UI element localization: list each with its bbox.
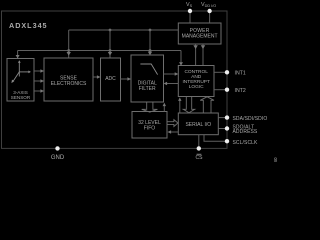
wire drop to 3-axis sensor xyxy=(16,51,20,59)
wide arrow filter to fifo xyxy=(142,102,158,112)
upper power rail xyxy=(69,29,179,31)
pin GND xyxy=(51,146,65,161)
svg-text:ELECTRONICS: ELECTRONICS xyxy=(51,81,87,87)
wire power to control 2 xyxy=(201,44,205,66)
svg-text:LOGIC: LOGIC xyxy=(189,84,204,90)
wire SDA/SDI/SDIO xyxy=(218,115,267,122)
axis icon xyxy=(11,60,31,83)
wire power to control 1 xyxy=(193,44,197,66)
svg-text:SERIAL I/O: SERIAL I/O xyxy=(185,122,211,128)
svg-text:MANAGEMENT: MANAGEMENT xyxy=(182,34,218,40)
wire sensor to sense x xyxy=(34,69,44,72)
control and interrupt logic block xyxy=(178,66,214,97)
wire adc to filter xyxy=(121,77,132,80)
svg-text:SENSOR: SENSOR xyxy=(11,95,31,100)
svg-text:GND: GND xyxy=(51,155,65,161)
wire INT2 xyxy=(214,88,246,94)
wire control to filter xyxy=(164,82,179,86)
pin VDD I/O xyxy=(201,2,216,23)
svg-text:ADXL345: ADXL345 xyxy=(9,21,48,30)
wire sensor to sense z xyxy=(34,89,44,92)
svg-text:DD I/O: DD I/O xyxy=(205,4,217,8)
32 level fifo block xyxy=(132,112,167,139)
sense electronics block xyxy=(44,58,93,101)
svg-text:SCL/SCLK: SCL/SCLK xyxy=(233,140,259,146)
svg-text:S: S xyxy=(190,4,193,8)
svg-text:80: 80 xyxy=(273,157,278,162)
svg-text:INT1: INT1 xyxy=(235,71,246,77)
wire rail drop to control logic xyxy=(179,51,183,66)
pin VS xyxy=(186,2,193,23)
chip outline xyxy=(2,11,228,148)
svg-text:FILTER: FILTER xyxy=(139,86,156,92)
adc block xyxy=(101,58,121,101)
lpf curve icon xyxy=(140,64,157,75)
junction dot upper rail x110 xyxy=(109,29,112,32)
wire SCL/SCLK xyxy=(204,135,258,146)
wire drop to digital filter xyxy=(148,30,152,55)
thin arrow fifo to filter xyxy=(163,103,166,112)
junction dot upper rail x150 xyxy=(149,29,152,32)
wide arrow serial to control xyxy=(200,97,214,113)
lower power rail xyxy=(18,50,181,52)
wire INT1 xyxy=(214,70,246,76)
wire sensor to sense y xyxy=(34,79,44,82)
serial i/o block xyxy=(178,113,218,135)
wire SDO/ALT ADDRESS xyxy=(218,124,258,135)
wire sense to adc xyxy=(93,75,101,78)
3-axis sensor block xyxy=(7,59,34,102)
svg-text:SDA/SDI/SDIO: SDA/SDI/SDIO xyxy=(233,116,268,122)
wire drop to sense electronics xyxy=(67,30,71,58)
wire filter to control xyxy=(164,72,179,76)
wide arrow control to serial xyxy=(183,97,194,113)
svg-text:ADC: ADC xyxy=(105,76,116,82)
thin arrow serial to fifo xyxy=(168,130,179,133)
svg-text:ADDRESS: ADDRESS xyxy=(233,129,258,135)
svg-text:INT2: INT2 xyxy=(235,88,246,94)
wire drop to adc xyxy=(108,30,112,58)
svg-text:FIFO: FIFO xyxy=(144,125,155,131)
power management U-PM xyxy=(178,23,221,44)
wire CS xyxy=(196,135,204,161)
svg-text:CS: CS xyxy=(196,155,204,161)
thin arrow serial to control left xyxy=(178,97,181,113)
wide arrow fifo to serial xyxy=(167,120,178,127)
digital filter block xyxy=(131,55,164,102)
